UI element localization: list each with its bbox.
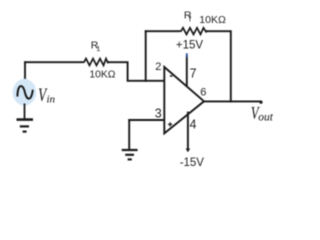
svg-text:7: 7 <box>190 66 197 80</box>
svg-text:4: 4 <box>190 117 197 131</box>
svg-text:in: in <box>47 94 56 106</box>
svg-text:2: 2 <box>155 61 161 73</box>
svg-text:6: 6 <box>200 87 206 99</box>
svg-text:+15V: +15V <box>176 39 204 51</box>
svg-text:out: out <box>258 111 274 123</box>
svg-text:10KΩ: 10KΩ <box>199 14 226 26</box>
svg-text:1: 1 <box>96 44 100 53</box>
svg-text:-15V: -15V <box>180 157 205 169</box>
svg-text:3: 3 <box>155 107 162 121</box>
svg-text:10KΩ: 10KΩ <box>89 70 115 81</box>
